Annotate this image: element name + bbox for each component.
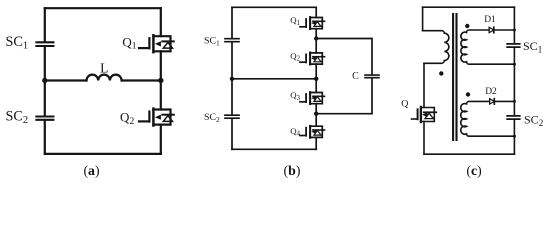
node junction left middle (a) [42, 78, 47, 83]
inductor L [87, 75, 122, 81]
transistor Q2 (b) [300, 53, 325, 65]
capacitor SC1 (b) [225, 39, 239, 42]
svg-text:(c): (c) [466, 163, 481, 179]
node primary dot [439, 71, 443, 75]
svg-text:SC1: SC1 [6, 34, 29, 52]
svg-text:Q2: Q2 [120, 110, 134, 127]
transformer secondary 2 winding [461, 101, 515, 136]
wire bottom (c) [424, 153, 514, 155]
transformer core [453, 14, 456, 140]
node junction Q3-Q4 (b) [314, 112, 318, 116]
node secondary 1 dot [465, 24, 469, 28]
transistor Q4 (b) [300, 126, 325, 149]
wire right rail lower (c) [513, 120, 515, 154]
wire top (a) [45, 7, 161, 9]
transistor Q2 (a) [139, 81, 174, 154]
svg-text:SC1: SC1 [204, 35, 220, 47]
svg-text:D2: D2 [485, 87, 497, 97]
wire capacitor branch bottom (b) [316, 79, 372, 114]
svg-text:Q3: Q3 [290, 90, 300, 102]
diode D2 [490, 99, 515, 104]
transformer primary winding [423, 31, 449, 64]
capacitor C [365, 75, 379, 78]
svg-text:C: C [352, 71, 359, 82]
wire left rail middle (a) [44, 47, 46, 116]
transformer secondary 1 winding [461, 30, 515, 64]
wire middle right (a) [122, 79, 161, 81]
wire left rail lower (b) [231, 119, 233, 149]
node junction secondary 2 rail [513, 135, 516, 138]
node secondary 2 dot [466, 92, 470, 96]
transistor Q (c) [412, 107, 437, 154]
wire left rail upper (b) [231, 7, 233, 38]
wire bottom (b) [232, 148, 316, 150]
svg-text:Q: Q [401, 98, 408, 109]
transistor Q1 (a) [139, 8, 174, 80]
diode D1 [489, 27, 514, 32]
transistor Q1 (b) [300, 7, 325, 29]
wire right rail upper (c) [513, 7, 515, 43]
wire midpoint (b) [232, 78, 316, 80]
wire middle left (a) [45, 79, 87, 81]
wire column segment Q2-Q3 (b) [315, 64, 317, 92]
svg-text:SC2: SC2 [6, 109, 29, 127]
svg-text:(a): (a) [83, 163, 99, 179]
capacitor SC2 (a) [36, 117, 53, 120]
svg-text:(b): (b) [284, 163, 301, 179]
wire left rail middle (b) [231, 43, 233, 115]
transistor Q3 (b) [300, 92, 325, 104]
node junction right middle (a) [158, 78, 163, 83]
svg-text:SC2: SC2 [524, 113, 543, 128]
capacitor SC1 (c) [507, 44, 520, 47]
wire capacitor branch top (b) [316, 39, 372, 75]
node junction midpoint left (b) [230, 77, 234, 81]
node junction D1 rail [513, 29, 516, 32]
node junction midpoint column (b) [314, 77, 318, 81]
wire top (b) [232, 6, 316, 8]
wire column segment Q1-Q2 (b) [315, 29, 317, 53]
svg-text:Q1: Q1 [290, 15, 300, 27]
capacitor SC2 (b) [225, 115, 239, 118]
wire right rail middle (c) [513, 48, 515, 115]
wire primary to Q drain (c) [423, 63, 425, 107]
wire top (c) [423, 6, 515, 8]
node junction Q1-Q2 (b) [314, 36, 318, 40]
wire left vertical (c) [422, 7, 424, 31]
svg-text:D1: D1 [484, 15, 496, 25]
svg-text:Q4: Q4 [290, 126, 300, 138]
wire bottom (a) [45, 153, 161, 155]
node junction D2 rail [513, 100, 516, 103]
wire left rail lower (a) [44, 121, 46, 154]
node junction secondary 1 rail [513, 63, 516, 66]
svg-text:L: L [100, 60, 108, 75]
capacitor SC1 (a) [36, 42, 53, 46]
svg-text:SC2: SC2 [204, 112, 220, 124]
wire left rail upper (a) [44, 8, 46, 41]
wire column segment Q3-Q4 (b) [315, 104, 317, 127]
capacitor SC2 (c) [507, 116, 520, 119]
svg-text:Q2: Q2 [290, 51, 300, 63]
svg-text:SC1: SC1 [523, 39, 542, 54]
svg-text:Q1: Q1 [122, 34, 136, 51]
